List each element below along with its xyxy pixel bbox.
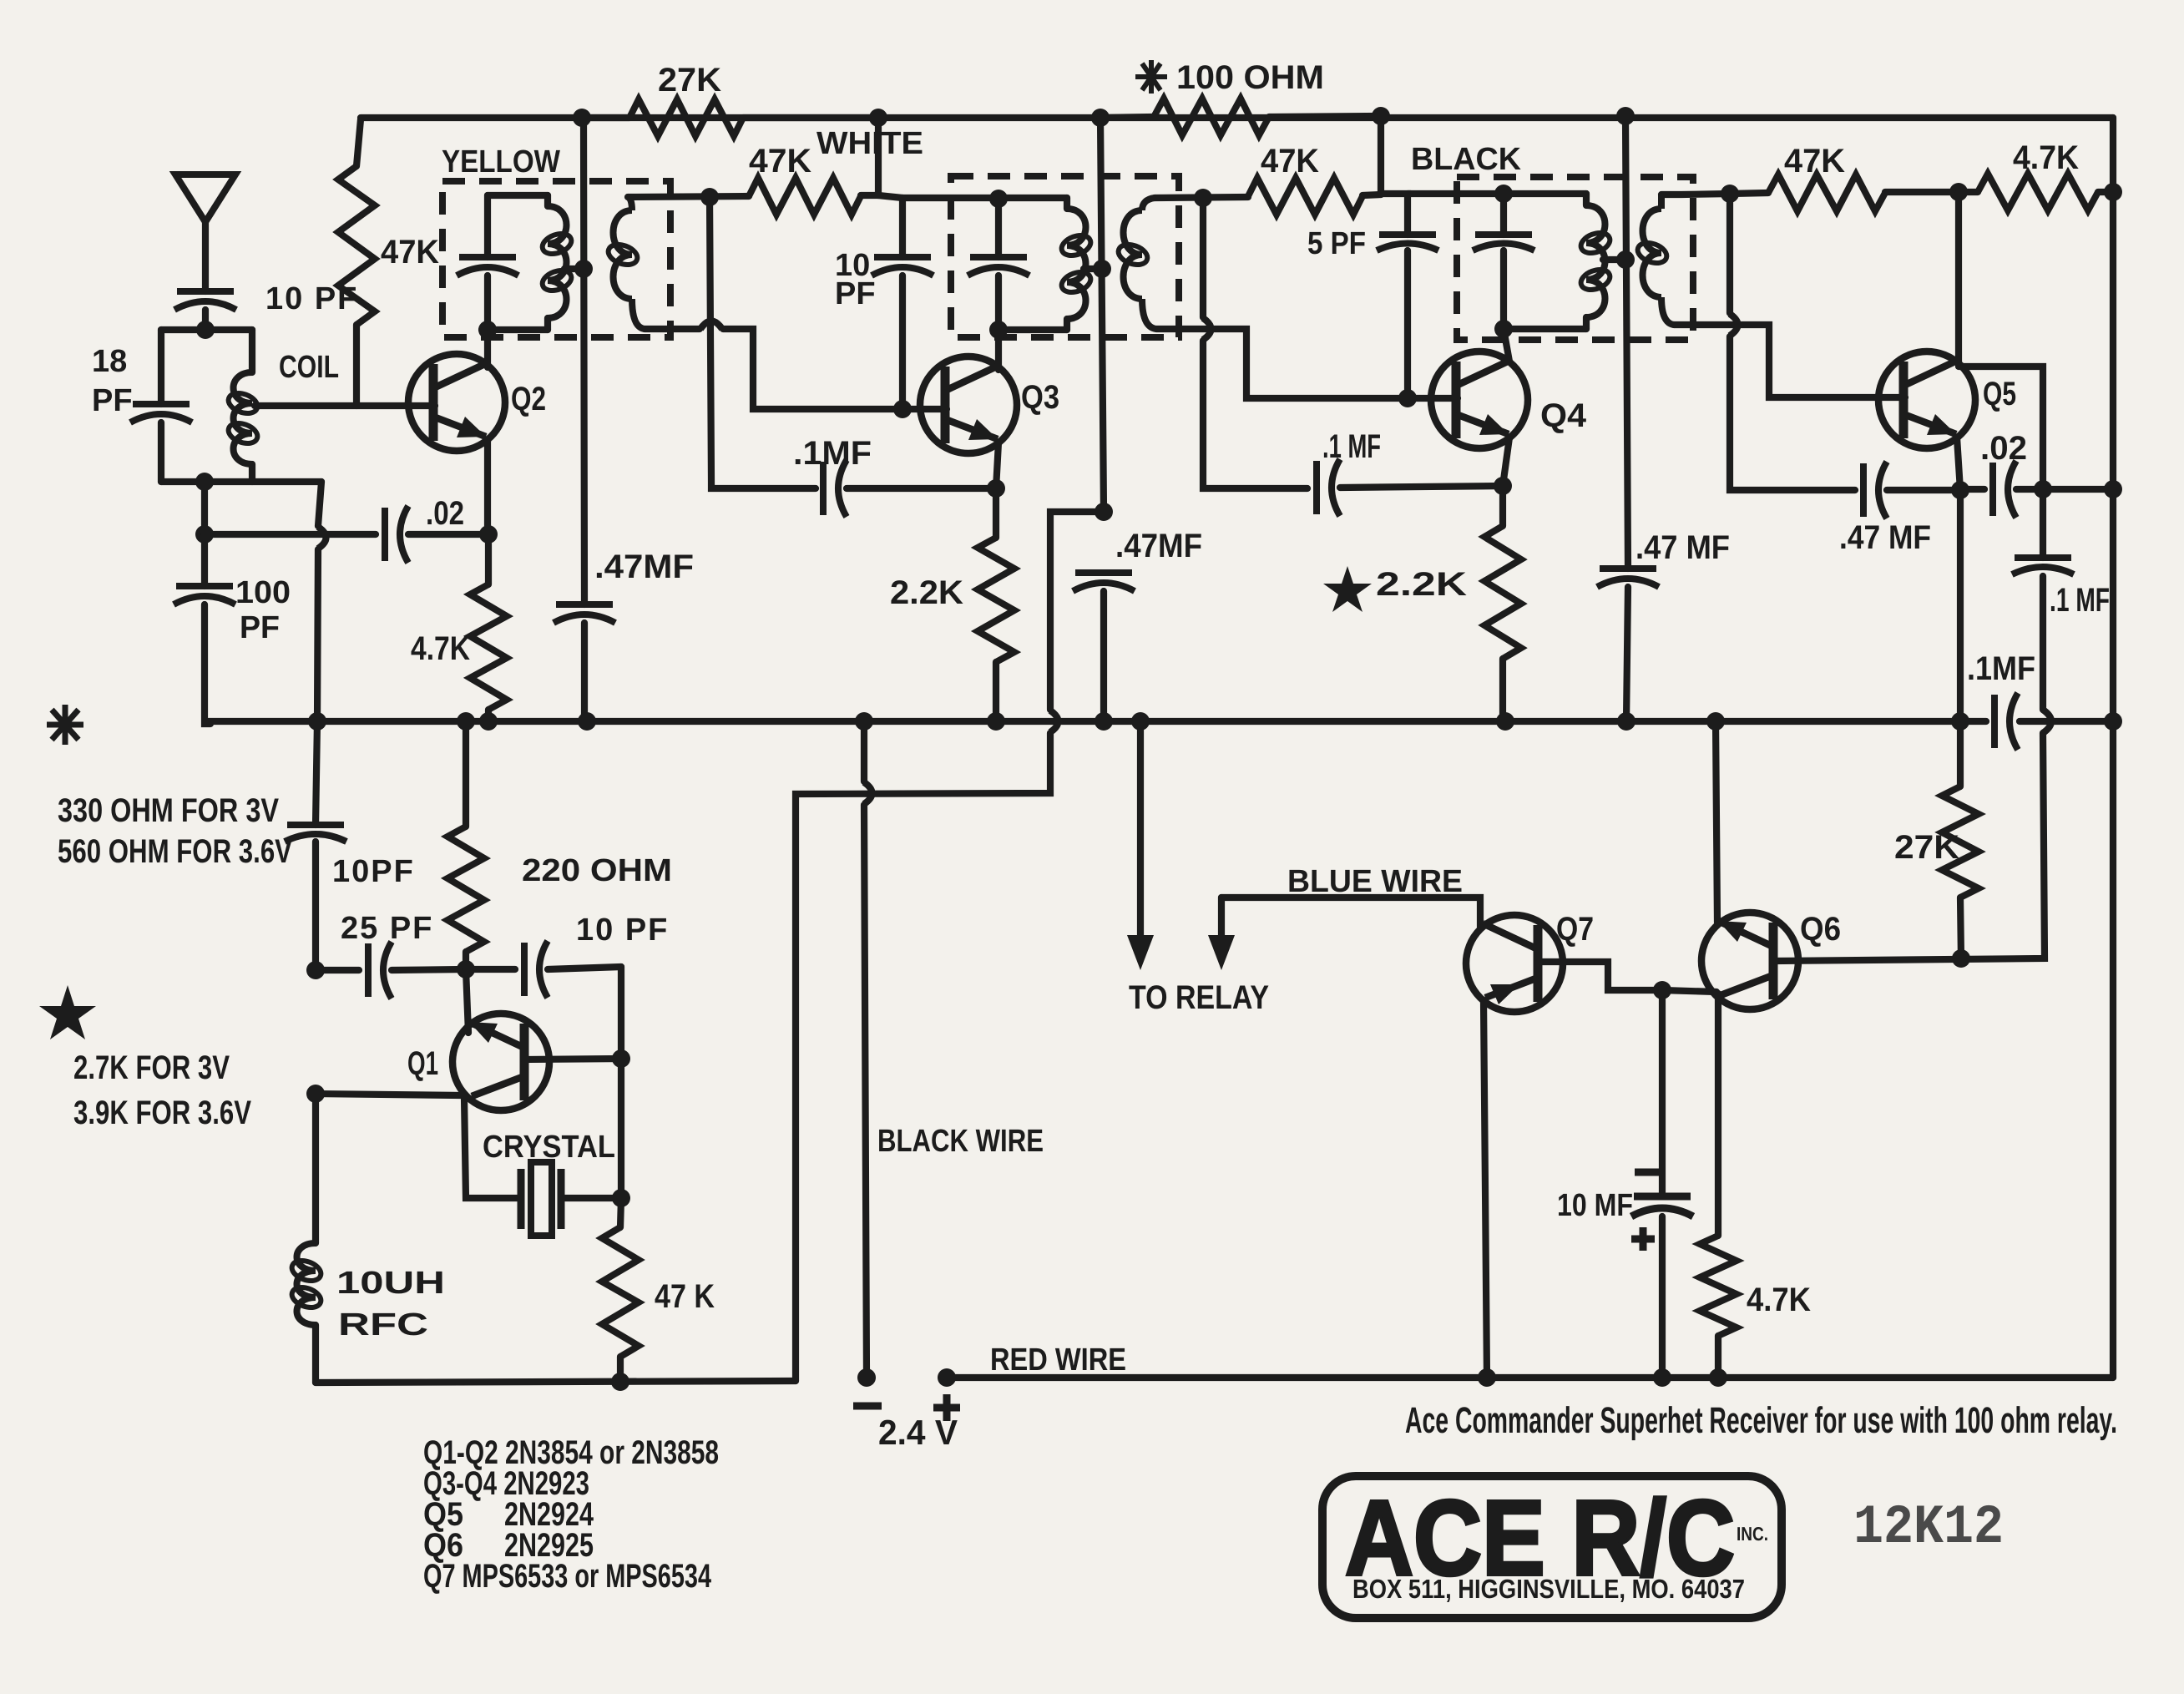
capacitor 100PF xyxy=(174,534,235,724)
svg-text:PF: PF xyxy=(835,276,876,311)
node bus junction 4.7K Q2 xyxy=(479,712,498,731)
wire output to right edge xyxy=(2043,486,2113,493)
capacitor .02 Q2 xyxy=(385,506,488,563)
resistor 4.7K Q5 collector load xyxy=(1959,174,2113,210)
resistor 220 OHM xyxy=(447,721,484,969)
label BLUE WIRE xyxy=(1287,864,1463,899)
wire 10PF tap from supply xyxy=(878,195,902,198)
svg-text:PF: PF xyxy=(92,383,133,418)
resistor 27K feedback xyxy=(1942,721,1979,958)
node bus junction Q6 top xyxy=(1706,712,1725,731)
wire TO RELAY arrow 1 xyxy=(1127,721,1154,970)
wire Q1 emitter lead xyxy=(466,969,468,1033)
wire .1MF branch stage2 xyxy=(710,197,816,488)
wire Q6 top lead from bus xyxy=(1716,721,1717,923)
svg-text:10UH: 10UH xyxy=(336,1266,445,1301)
svg-text:BLUE WIRE: BLUE WIRE xyxy=(1287,864,1463,899)
label transistor list line2 xyxy=(423,1465,589,1502)
svg-text:100 OHM: 100 OHM xyxy=(1176,59,1324,96)
label 10 PF crystal xyxy=(576,913,669,948)
capacitor 10PF crystal xyxy=(466,941,621,998)
label .47 MF stage4 xyxy=(1839,519,1931,556)
wire top supply bus xyxy=(361,114,2113,121)
label .1 MF stage3 xyxy=(1322,428,1381,465)
label WHITE xyxy=(816,126,923,161)
node antenna-tank junction xyxy=(196,321,215,339)
wire T2 center tap xyxy=(1084,265,1100,272)
wire T2 primary bottom rail xyxy=(993,326,1067,333)
svg-text:47K: 47K xyxy=(749,143,811,180)
node Q3 emitter junction xyxy=(987,479,1005,498)
resistor 47K Q2 bias xyxy=(338,119,375,406)
wire T1 primary top rail xyxy=(488,192,548,199)
svg-text:Q1: Q1 xyxy=(407,1045,438,1082)
resistor 47K stage4 load xyxy=(1768,174,1959,211)
wire Q7 base lead xyxy=(1538,962,1662,990)
label Q4 xyxy=(1540,397,1587,434)
wire T2 feed vertical xyxy=(1100,118,1104,512)
logo ACE R/C box xyxy=(1322,1476,1782,1618)
capacitor .47MF stage3 xyxy=(1597,569,1659,721)
wire crystal right leg xyxy=(618,967,624,1198)
node bus junction Q3 emitter xyxy=(987,712,1005,731)
capacitor .1MF in ground bus xyxy=(1967,650,2035,750)
label Q7 xyxy=(1556,911,1594,948)
svg-text:10 MF: 10 MF xyxy=(1557,1188,1633,1223)
label transistor list line4 xyxy=(423,1527,594,1564)
wire T3 feed vertical xyxy=(1625,118,1628,569)
wire oscillator ground return xyxy=(796,512,1104,1381)
wire Q3 collector xyxy=(995,330,1002,370)
label .47MF stage2 xyxy=(1115,528,1202,564)
resistor 2.2K Q3 emitter xyxy=(978,488,1014,721)
node T1 tap junction xyxy=(574,260,593,278)
capacitor 5PF Q4 base xyxy=(1377,194,1438,398)
node 10MF bottom on red wire xyxy=(1653,1368,1671,1387)
svg-text:47K: 47K xyxy=(381,234,439,271)
coil tank COIL xyxy=(225,330,260,482)
resistor 4.7K Q2 emitter xyxy=(470,534,507,721)
label .02 output xyxy=(1980,430,2027,467)
node Q1 collector junction xyxy=(612,1049,630,1068)
label 220 OHM xyxy=(522,853,672,888)
svg-text:Q7 MPS6533 or MPS6534: Q7 MPS6533 or MPS6534 xyxy=(423,1558,712,1595)
label .47 MF stage3 xyxy=(1635,529,1730,566)
svg-text:47K: 47K xyxy=(1261,143,1319,180)
transistor Q6 xyxy=(1701,913,1798,1009)
wire Q7 base to Q6 xyxy=(1662,990,1716,992)
label Q2 xyxy=(511,381,546,417)
svg-text:CRYSTAL: CRYSTAL xyxy=(483,1130,615,1165)
node 4.7K right edge junction xyxy=(2104,183,2122,201)
label 47K stage4 xyxy=(1784,143,1845,180)
node battery plus terminal xyxy=(938,1368,956,1387)
svg-text:47K: 47K xyxy=(1784,143,1845,180)
svg-text:.47MF: .47MF xyxy=(594,549,694,585)
capacitor 25PF xyxy=(316,942,466,999)
wire T1 feed vertical xyxy=(584,118,584,604)
label 10 MF xyxy=(1557,1188,1633,1223)
wire .47MF branch stage4 xyxy=(1730,194,1855,490)
label 560 OHM FOR 3.6V xyxy=(58,833,292,870)
svg-text:27K: 27K xyxy=(658,62,721,99)
node bus junction stage1 bypass xyxy=(578,712,596,731)
svg-text:COIL: COIL xyxy=(279,350,339,385)
node crystal/47K junction xyxy=(612,1189,630,1207)
capacitor .1MF Q5 output xyxy=(2012,489,2110,619)
label CRYSTAL xyxy=(483,1130,615,1165)
svg-text:.02: .02 xyxy=(426,495,464,532)
node top bus junction E xyxy=(1616,107,1635,125)
node 47K bottom junction xyxy=(611,1373,629,1391)
node Q1 base node xyxy=(306,1085,325,1103)
svg-text:.47MF: .47MF xyxy=(1115,528,1202,564)
node battery minus terminal xyxy=(857,1368,876,1387)
svg-text:18: 18 xyxy=(92,344,127,379)
wire Q2 collector xyxy=(484,330,491,367)
svg-text:27K: 27K xyxy=(1894,829,1959,866)
node T1 secondary top junction xyxy=(700,188,719,206)
svg-text:3.9K FOR 3.6V: 3.9K FOR 3.6V xyxy=(73,1095,251,1131)
label 100 PF xyxy=(235,575,291,645)
node T3 secondary top junction xyxy=(1721,185,1739,203)
capacitor .1MF Q4 emitter coupling xyxy=(1317,459,1503,516)
wire Q2 emitter xyxy=(484,440,491,534)
wire T3 primary bottom rail xyxy=(1499,326,1586,332)
wire Q2 base from coil tap xyxy=(255,402,435,409)
node T1 primary bottom junction xyxy=(478,321,497,339)
transistor Q5 xyxy=(1878,351,1975,448)
node T2 tap junction xyxy=(1093,260,1111,278)
node bus junction black wire xyxy=(855,712,873,731)
svg-text:.47 MF: .47 MF xyxy=(1635,529,1730,566)
svg-text:BLACK: BLACK xyxy=(1411,142,1522,177)
node Q1 emitter junction xyxy=(457,960,475,978)
wire Q5 emitter to ground bus xyxy=(1957,490,1964,721)
svg-text:.1 MF: .1 MF xyxy=(2050,582,2110,619)
node bus junction Q5 emitter xyxy=(1951,712,1969,731)
label 3.9K FOR 3.6V xyxy=(73,1095,251,1131)
node bus junction 220ohm xyxy=(457,712,475,731)
wire .1MF branch stage3 xyxy=(1203,198,1307,488)
svg-text:2.2K: 2.2K xyxy=(1376,566,1467,603)
label Q3 xyxy=(1021,379,1059,416)
wire mid ground bus xyxy=(205,718,2113,725)
svg-text:.1MF: .1MF xyxy=(793,435,872,472)
svg-text:Q2: Q2 xyxy=(511,381,546,417)
svg-text:.1 MF: .1 MF xyxy=(1322,428,1381,465)
svg-text:BLACK WIRE: BLACK WIRE xyxy=(877,1124,1044,1159)
wire T2 secondary bottom to Q4 base xyxy=(1156,329,1458,398)
svg-text:2.4 V: 2.4 V xyxy=(878,1413,958,1452)
label Q6 xyxy=(1800,911,1841,948)
svg-text:220 OHM: 220 OHM xyxy=(522,853,672,888)
label 2.4 V xyxy=(878,1413,958,1452)
resistor 47K crystal xyxy=(602,1198,639,1383)
coil 10UH RFC xyxy=(289,1094,323,1383)
label YELLOW xyxy=(442,144,560,180)
svg-text:Q7: Q7 xyxy=(1556,911,1594,948)
node Q6 collector junction xyxy=(1952,949,1970,968)
node Q6 emitter on red wire xyxy=(1709,1368,1727,1387)
svg-text:330 OHM FOR 3V: 330 OHM FOR 3V xyxy=(58,792,279,829)
wire Q6 emitter xyxy=(1715,994,1721,1236)
label 2.2K Q3 xyxy=(890,574,963,611)
node T3 top rail junction xyxy=(1494,185,1513,203)
svg-text:BOX 511, HIGGINSVILLE, MO. 640: BOX 511, HIGGINSVILLE, MO. 64037 xyxy=(1352,1574,1745,1604)
svg-text:WHITE: WHITE xyxy=(816,126,923,161)
wire T3 secondary bottom to Q5 base xyxy=(1674,325,1905,397)
transformer T1 dashed can xyxy=(442,181,670,337)
svg-text:560 OHM FOR 3.6V: 560 OHM FOR 3.6V xyxy=(58,833,292,870)
node top bus junction D xyxy=(1372,107,1390,125)
label 330 OHM FOR 3V xyxy=(58,792,279,829)
svg-text:PF: PF xyxy=(240,610,280,645)
node T3 primary bottom junction xyxy=(1494,320,1513,338)
wire Q4 collector xyxy=(1504,329,1509,362)
node Q7 emitter on red wire xyxy=(1478,1368,1496,1387)
wire T2 primary top rail xyxy=(902,195,1067,201)
label 47K Q2 bias xyxy=(381,234,439,271)
stamp 12K12 xyxy=(1853,1496,2004,1559)
wire crystal left leg xyxy=(464,1097,521,1198)
label .1MF stage2 xyxy=(793,435,872,472)
label 2.7K FOR 3V xyxy=(73,1049,230,1086)
battery plus sign xyxy=(933,1394,960,1421)
wire T2 secondary top to 47K xyxy=(1155,197,1248,198)
wire T1 center tap xyxy=(564,265,582,272)
resistor 4.7K Q6 emitter xyxy=(1700,1236,1737,1378)
node .02 left junction xyxy=(195,525,214,544)
svg-text:2.7K FOR 3V: 2.7K FOR 3V xyxy=(73,1049,230,1086)
svg-text:TO RELAY: TO RELAY xyxy=(1129,979,1269,1016)
label transistor list line5 xyxy=(423,1558,712,1595)
capacitor .02 output xyxy=(1960,461,2043,518)
svg-text:RED WIRE: RED WIRE xyxy=(990,1343,1126,1378)
node .02 output junction xyxy=(2034,480,2052,498)
node bus junction right edge xyxy=(2104,712,2122,731)
svg-text:4.7K: 4.7K xyxy=(2013,139,2079,176)
node bus junction Q4 emitter xyxy=(1496,712,1514,731)
svg-text:5 PF: 5 PF xyxy=(1307,226,1366,261)
svg-text:12K12: 12K12 xyxy=(1853,1496,2004,1559)
label 10PF column xyxy=(332,854,415,889)
svg-text:47 K: 47 K xyxy=(655,1278,715,1315)
label 4.7K Q6 xyxy=(1747,1282,1811,1318)
label 47K crystal xyxy=(655,1278,715,1315)
label transistor list line3 xyxy=(423,1496,594,1533)
label .47MF stage1 xyxy=(594,549,694,585)
wire Q1 collector lead xyxy=(524,1059,621,1059)
capacitor T2 primary tuning xyxy=(968,199,1029,330)
battery minus sign xyxy=(853,1403,882,1410)
svg-text:INC.: INC. xyxy=(1737,1523,1768,1545)
label 25 PF xyxy=(341,911,433,946)
capacitor T1 primary tuning xyxy=(457,195,518,330)
transformer T3 dashed can xyxy=(1457,177,1693,340)
svg-text:.1MF: .1MF xyxy=(1967,650,2035,687)
capacitor .47MF Q5 emitter coupling xyxy=(1863,462,1960,518)
capacitor T3 primary tuning xyxy=(1473,194,1534,329)
label BLACK WIRE xyxy=(877,1124,1044,1159)
node Q7 base node xyxy=(1653,981,1671,999)
node bus junction stage2 bypass xyxy=(1095,712,1113,731)
coil T1 primary xyxy=(539,195,574,330)
node T3 tap junction xyxy=(1616,250,1635,269)
wire Q4 emitter xyxy=(1503,437,1509,486)
wire BLACK WIRE battery minus xyxy=(864,721,872,1378)
svg-text:4.7K: 4.7K xyxy=(1747,1282,1811,1318)
svg-text:Ace Commander Superhet Receive: Ace Commander Superhet Receiver for use … xyxy=(1405,1400,2117,1441)
wire T3 center tap xyxy=(1603,256,1624,263)
wire right edge supply rail xyxy=(2110,118,2116,1378)
wire bottom left rail xyxy=(316,1381,796,1383)
coil T2 secondary xyxy=(1115,198,1156,329)
asterisk note symbol xyxy=(47,705,83,745)
wire Q3 emitter xyxy=(996,442,998,488)
transistor Q2 xyxy=(408,354,505,451)
resistor 47K stage3 load xyxy=(1248,116,1381,215)
wire tank bottom rail xyxy=(161,478,321,485)
wire T1 primary bottom rail xyxy=(482,326,548,333)
svg-text:Q5: Q5 xyxy=(1983,376,2016,412)
node T2 secondary top junction xyxy=(1194,189,1212,207)
node 47K/4.7K junction xyxy=(1949,183,1968,201)
coil T2 primary xyxy=(1059,198,1093,330)
label COIL xyxy=(279,350,339,385)
label 5 PF xyxy=(1307,226,1366,261)
node top bus junction A xyxy=(573,109,591,127)
node right edge output junction xyxy=(2104,480,2122,498)
node top bus junction B xyxy=(869,109,887,127)
node 25PF junction xyxy=(306,961,325,979)
label 27K feedback xyxy=(1894,829,1959,866)
wire tank top rail xyxy=(161,326,252,333)
resistor 47K stage2 load xyxy=(749,118,878,215)
antenna xyxy=(175,174,235,291)
svg-text:10 PF: 10 PF xyxy=(576,913,669,948)
wire Q5 collector xyxy=(1959,192,2043,489)
label RED WIRE xyxy=(990,1343,1126,1378)
node Q3 base junction xyxy=(893,400,912,418)
crystal X1 xyxy=(521,1162,561,1236)
wire crystal to 47K xyxy=(561,1195,621,1201)
svg-text:Q4: Q4 xyxy=(1540,397,1587,434)
capacitor .47MF stage2 xyxy=(1073,573,1135,721)
node T2 primary bottom junction xyxy=(989,321,1008,339)
label star 2.2K Q4 xyxy=(1323,566,1467,612)
svg-text:YELLOW: YELLOW xyxy=(442,144,560,180)
transistor Q3 xyxy=(920,356,1017,453)
capacitor 10MF electrolytic xyxy=(1631,990,1693,1378)
node bus junction stage3 bypass xyxy=(1617,712,1635,731)
svg-text:10PF: 10PF xyxy=(332,854,415,889)
label .02 Q2 xyxy=(426,495,464,532)
node .47MF top junction stage2 xyxy=(1095,503,1113,521)
label BLACK xyxy=(1411,142,1522,177)
capacitor 10PF Q3 base xyxy=(872,198,933,409)
label 10 PF Q3 xyxy=(835,248,876,311)
wire T1 secondary top to 47K xyxy=(628,196,749,197)
transistor Q4 xyxy=(1431,351,1528,448)
label 100 OHM with asterisk xyxy=(1135,59,1324,96)
node Q4 base junction xyxy=(1398,389,1417,407)
wire Q7 emitter xyxy=(1484,1000,1487,1378)
label transistor list line1 xyxy=(423,1434,719,1471)
wire BLUE WIRE with arrow xyxy=(1208,898,1480,970)
svg-text:.02: .02 xyxy=(1980,430,2027,467)
label Q5 xyxy=(1983,376,2016,412)
wire T1 secondary bottom to Q3 base xyxy=(645,321,947,410)
coil T3 secondary xyxy=(1635,195,1674,325)
node T2 top rail junction xyxy=(989,190,1008,208)
svg-text:.47 MF: .47 MF xyxy=(1839,519,1931,556)
node Q2 emitter/.02 junction xyxy=(479,525,498,544)
label 10UH RFC xyxy=(336,1266,445,1343)
resistor 100 OHM (top) xyxy=(1100,99,1381,135)
node tank bottom junction xyxy=(195,473,214,491)
label 27K xyxy=(658,62,721,99)
wire RFC column upper xyxy=(316,721,317,825)
capacitor .1MF Q3 emitter coupling xyxy=(823,460,996,517)
node top bus junction C xyxy=(1091,109,1110,127)
transformer T2 dashed can xyxy=(951,176,1179,337)
label 18 PF xyxy=(92,344,133,418)
coil T3 primary xyxy=(1578,194,1612,329)
svg-text:100: 100 xyxy=(235,575,291,610)
node bus junction relay tap xyxy=(1131,712,1150,731)
capacitor .47MF stage1 xyxy=(554,604,615,721)
label 47K stage3 xyxy=(1261,143,1319,180)
coil T1 secondary xyxy=(605,197,645,329)
label TO RELAY xyxy=(1129,979,1269,1016)
wire T3 primary top rail xyxy=(1408,190,1586,197)
wire tank right leg to bus xyxy=(317,482,326,721)
label 47K stage2 xyxy=(749,143,811,180)
resistor 27K (top) xyxy=(582,99,878,136)
node Q4 emitter junction xyxy=(1494,477,1512,495)
transistor Q7 xyxy=(1466,915,1563,1012)
wire tank bottom drop xyxy=(201,482,208,534)
node Q5 emitter junction xyxy=(1951,481,1969,499)
wire Q5 emitter xyxy=(1957,437,1960,490)
svg-text:RFC: RFC xyxy=(338,1307,428,1343)
svg-text:Q3: Q3 xyxy=(1021,379,1059,416)
wire .02 line xyxy=(205,531,376,538)
transistor Q1 xyxy=(452,1014,549,1110)
label 4.7K Q2 xyxy=(411,630,470,667)
label caption xyxy=(1405,1400,2117,1441)
svg-text:Q6: Q6 xyxy=(1800,911,1841,948)
label 10 PF antenna xyxy=(265,281,358,316)
node bus junction tank leg xyxy=(308,712,326,731)
wire Q1 base lead xyxy=(314,1094,461,1095)
svg-text:25 PF: 25 PF xyxy=(341,911,433,946)
wire Q6 collector run xyxy=(1773,576,2051,961)
svg-text:2.2K: 2.2K xyxy=(890,574,963,611)
svg-text:4.7K: 4.7K xyxy=(411,630,470,667)
label 4.7K top xyxy=(2013,139,2079,176)
capacitor 10PF antenna xyxy=(174,291,236,330)
wire RED WIRE xyxy=(947,1374,2113,1381)
resistor 2.2K Q4 emitter xyxy=(1484,486,1521,721)
wire T3 secondary top to 47K xyxy=(1661,193,1768,195)
capacitor 18PF tank xyxy=(130,330,192,482)
star note symbol xyxy=(39,985,96,1039)
label Q1 xyxy=(407,1045,438,1082)
capacitor 10PF RFC column xyxy=(285,825,346,970)
